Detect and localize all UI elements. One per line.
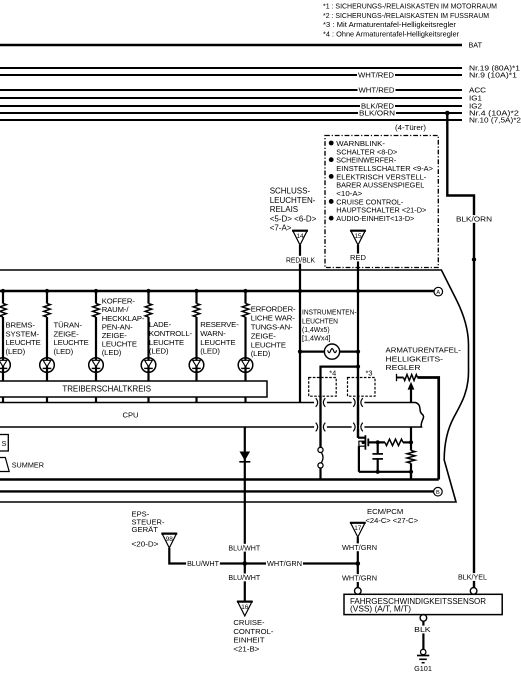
svg-text:BLK/YEL: BLK/YEL <box>458 573 487 582</box>
svg-text:BAT: BAT <box>469 41 483 50</box>
svg-text:<7-A>: <7-A> <box>270 224 292 233</box>
svg-text:LEUCHTE: LEUCHTE <box>149 338 184 347</box>
svg-text:ZEIGE-: ZEIGE- <box>251 331 277 340</box>
svg-text:WHT/RED: WHT/RED <box>359 86 396 95</box>
svg-text:CRUISE-: CRUISE- <box>233 618 265 627</box>
svg-text:(LED): (LED) <box>102 348 122 357</box>
svg-text:BLU/WHT: BLU/WHT <box>228 543 260 552</box>
svg-text:*1 : SICHERUNGS-/RELAISKASTEN: *1 : SICHERUNGS-/RELAISKASTEN IM MOTORRA… <box>323 2 497 11</box>
svg-text:LEUCHTE: LEUCHTE <box>251 340 286 349</box>
svg-text:ECM/PCM: ECM/PCM <box>367 507 403 516</box>
svg-text:A: A <box>436 290 440 296</box>
svg-text:WHT/GRN: WHT/GRN <box>342 574 377 583</box>
svg-text:WARN-: WARN- <box>200 329 226 338</box>
svg-text:*3: *3 <box>366 368 373 377</box>
svg-text:LEUCHTE: LEUCHTE <box>200 338 235 347</box>
svg-text:ARMATURENTAFEL-: ARMATURENTAFEL- <box>386 346 462 355</box>
svg-text:TREIBERSCHALTKREIS: TREIBERSCHALTKREIS <box>62 385 151 394</box>
svg-text:GERÄT: GERÄT <box>132 525 159 534</box>
svg-text:Nr.9 (10A)*1: Nr.9 (10A)*1 <box>469 71 517 80</box>
svg-text:AUDIO-EINHEIT<13-D>: AUDIO-EINHEIT<13-D> <box>336 214 415 223</box>
svg-text:(LED): (LED) <box>54 347 74 356</box>
svg-text:(LED): (LED) <box>251 349 271 358</box>
svg-text:(1,4Wx5): (1,4Wx5) <box>302 325 330 334</box>
svg-text:INSTRUMENTEN-: INSTRUMENTEN- <box>302 308 357 317</box>
svg-text:LADE-: LADE- <box>149 320 172 329</box>
svg-text:98: 98 <box>166 536 174 543</box>
svg-text:RELAIS: RELAIS <box>270 205 298 214</box>
svg-text:WHT/GRN: WHT/GRN <box>342 543 377 552</box>
svg-text:SUMMER: SUMMER <box>12 460 44 469</box>
svg-text:(VSS) (A/T, M/T): (VSS) (A/T, M/T) <box>350 605 411 614</box>
svg-text:WHT/GRN: WHT/GRN <box>267 559 302 568</box>
svg-text:ZEIGE-: ZEIGE- <box>54 329 80 338</box>
svg-text:RED: RED <box>350 253 367 262</box>
svg-text:15: 15 <box>354 233 362 240</box>
svg-text:BLK/ORN: BLK/ORN <box>456 215 492 224</box>
svg-text:B: B <box>436 490 440 496</box>
svg-text:17: 17 <box>354 525 362 532</box>
svg-text:BREMS-: BREMS- <box>6 320 36 329</box>
svg-text:16: 16 <box>241 604 249 611</box>
svg-text:Nr.10 (7,5A)*2: Nr.10 (7,5A)*2 <box>469 116 521 125</box>
svg-text:SYSTEM-: SYSTEM- <box>6 329 40 338</box>
svg-text:BLK/ORN: BLK/ORN <box>359 109 395 118</box>
svg-text:<21-B>: <21-B> <box>233 645 260 654</box>
svg-text:BLU/WHT: BLU/WHT <box>228 573 260 582</box>
svg-text:<20-D>: <20-D> <box>132 540 160 549</box>
svg-text:CPU: CPU <box>122 410 138 419</box>
svg-text:BLU/WHT: BLU/WHT <box>187 559 219 568</box>
svg-text:14: 14 <box>296 233 304 240</box>
svg-text:*2 : SICHERUNGS-/RELAISKASTEN: *2 : SICHERUNGS-/RELAISKASTEN IM FUSSRAU… <box>323 11 489 20</box>
svg-text:TÜRAN-: TÜRAN- <box>54 320 83 329</box>
svg-text:SCHLUSS-: SCHLUSS- <box>270 187 311 196</box>
svg-text:EINHEIT: EINHEIT <box>233 636 265 645</box>
svg-text:RED/BLK: RED/BLK <box>286 255 315 264</box>
svg-text:(LED): (LED) <box>6 347 26 356</box>
svg-text:*4: *4 <box>329 368 336 377</box>
svg-text:TUNGS-AN-: TUNGS-AN- <box>251 322 293 331</box>
svg-text:(LED): (LED) <box>200 347 220 356</box>
svg-text:S: S <box>2 439 7 448</box>
svg-text:RESERVE-: RESERVE- <box>200 320 239 329</box>
svg-text:G101: G101 <box>414 664 432 673</box>
svg-text:*3 : Mit Armaturentafel-Hellig: *3 : Mit Armaturentafel-Helligkeitsregle… <box>323 20 457 29</box>
svg-text:CONTROL-: CONTROL- <box>233 627 273 636</box>
svg-text:LEUCHTEN-: LEUCHTEN- <box>270 196 316 205</box>
svg-text:HELLIGKEITS-: HELLIGKEITS- <box>386 354 444 363</box>
svg-text:ERFORDER-: ERFORDER- <box>251 305 296 314</box>
svg-text:BLK: BLK <box>414 625 431 634</box>
svg-text:[1,4Wx4]: [1,4Wx4] <box>302 334 331 343</box>
svg-text:(LED): (LED) <box>149 347 169 356</box>
svg-text:<5-D> <6-D>: <5-D> <6-D> <box>270 214 317 223</box>
svg-text:KONTROLL-: KONTROLL- <box>149 329 193 338</box>
svg-text:REGLER: REGLER <box>386 363 421 372</box>
svg-text:*4 : Ohne Armaturentafel-Helli: *4 : Ohne Armaturentafel-Helligkeitsregl… <box>323 30 460 39</box>
svg-text:LICHE WAR-: LICHE WAR- <box>251 313 296 322</box>
svg-text:<24-C> <27-C>: <24-C> <27-C> <box>366 516 419 525</box>
svg-text:LEUCHTE: LEUCHTE <box>6 338 41 347</box>
svg-text:(4-Türer): (4-Türer) <box>395 123 426 132</box>
svg-text:LEUCHTE: LEUCHTE <box>54 338 89 347</box>
svg-text:WHT/RED: WHT/RED <box>358 71 395 80</box>
